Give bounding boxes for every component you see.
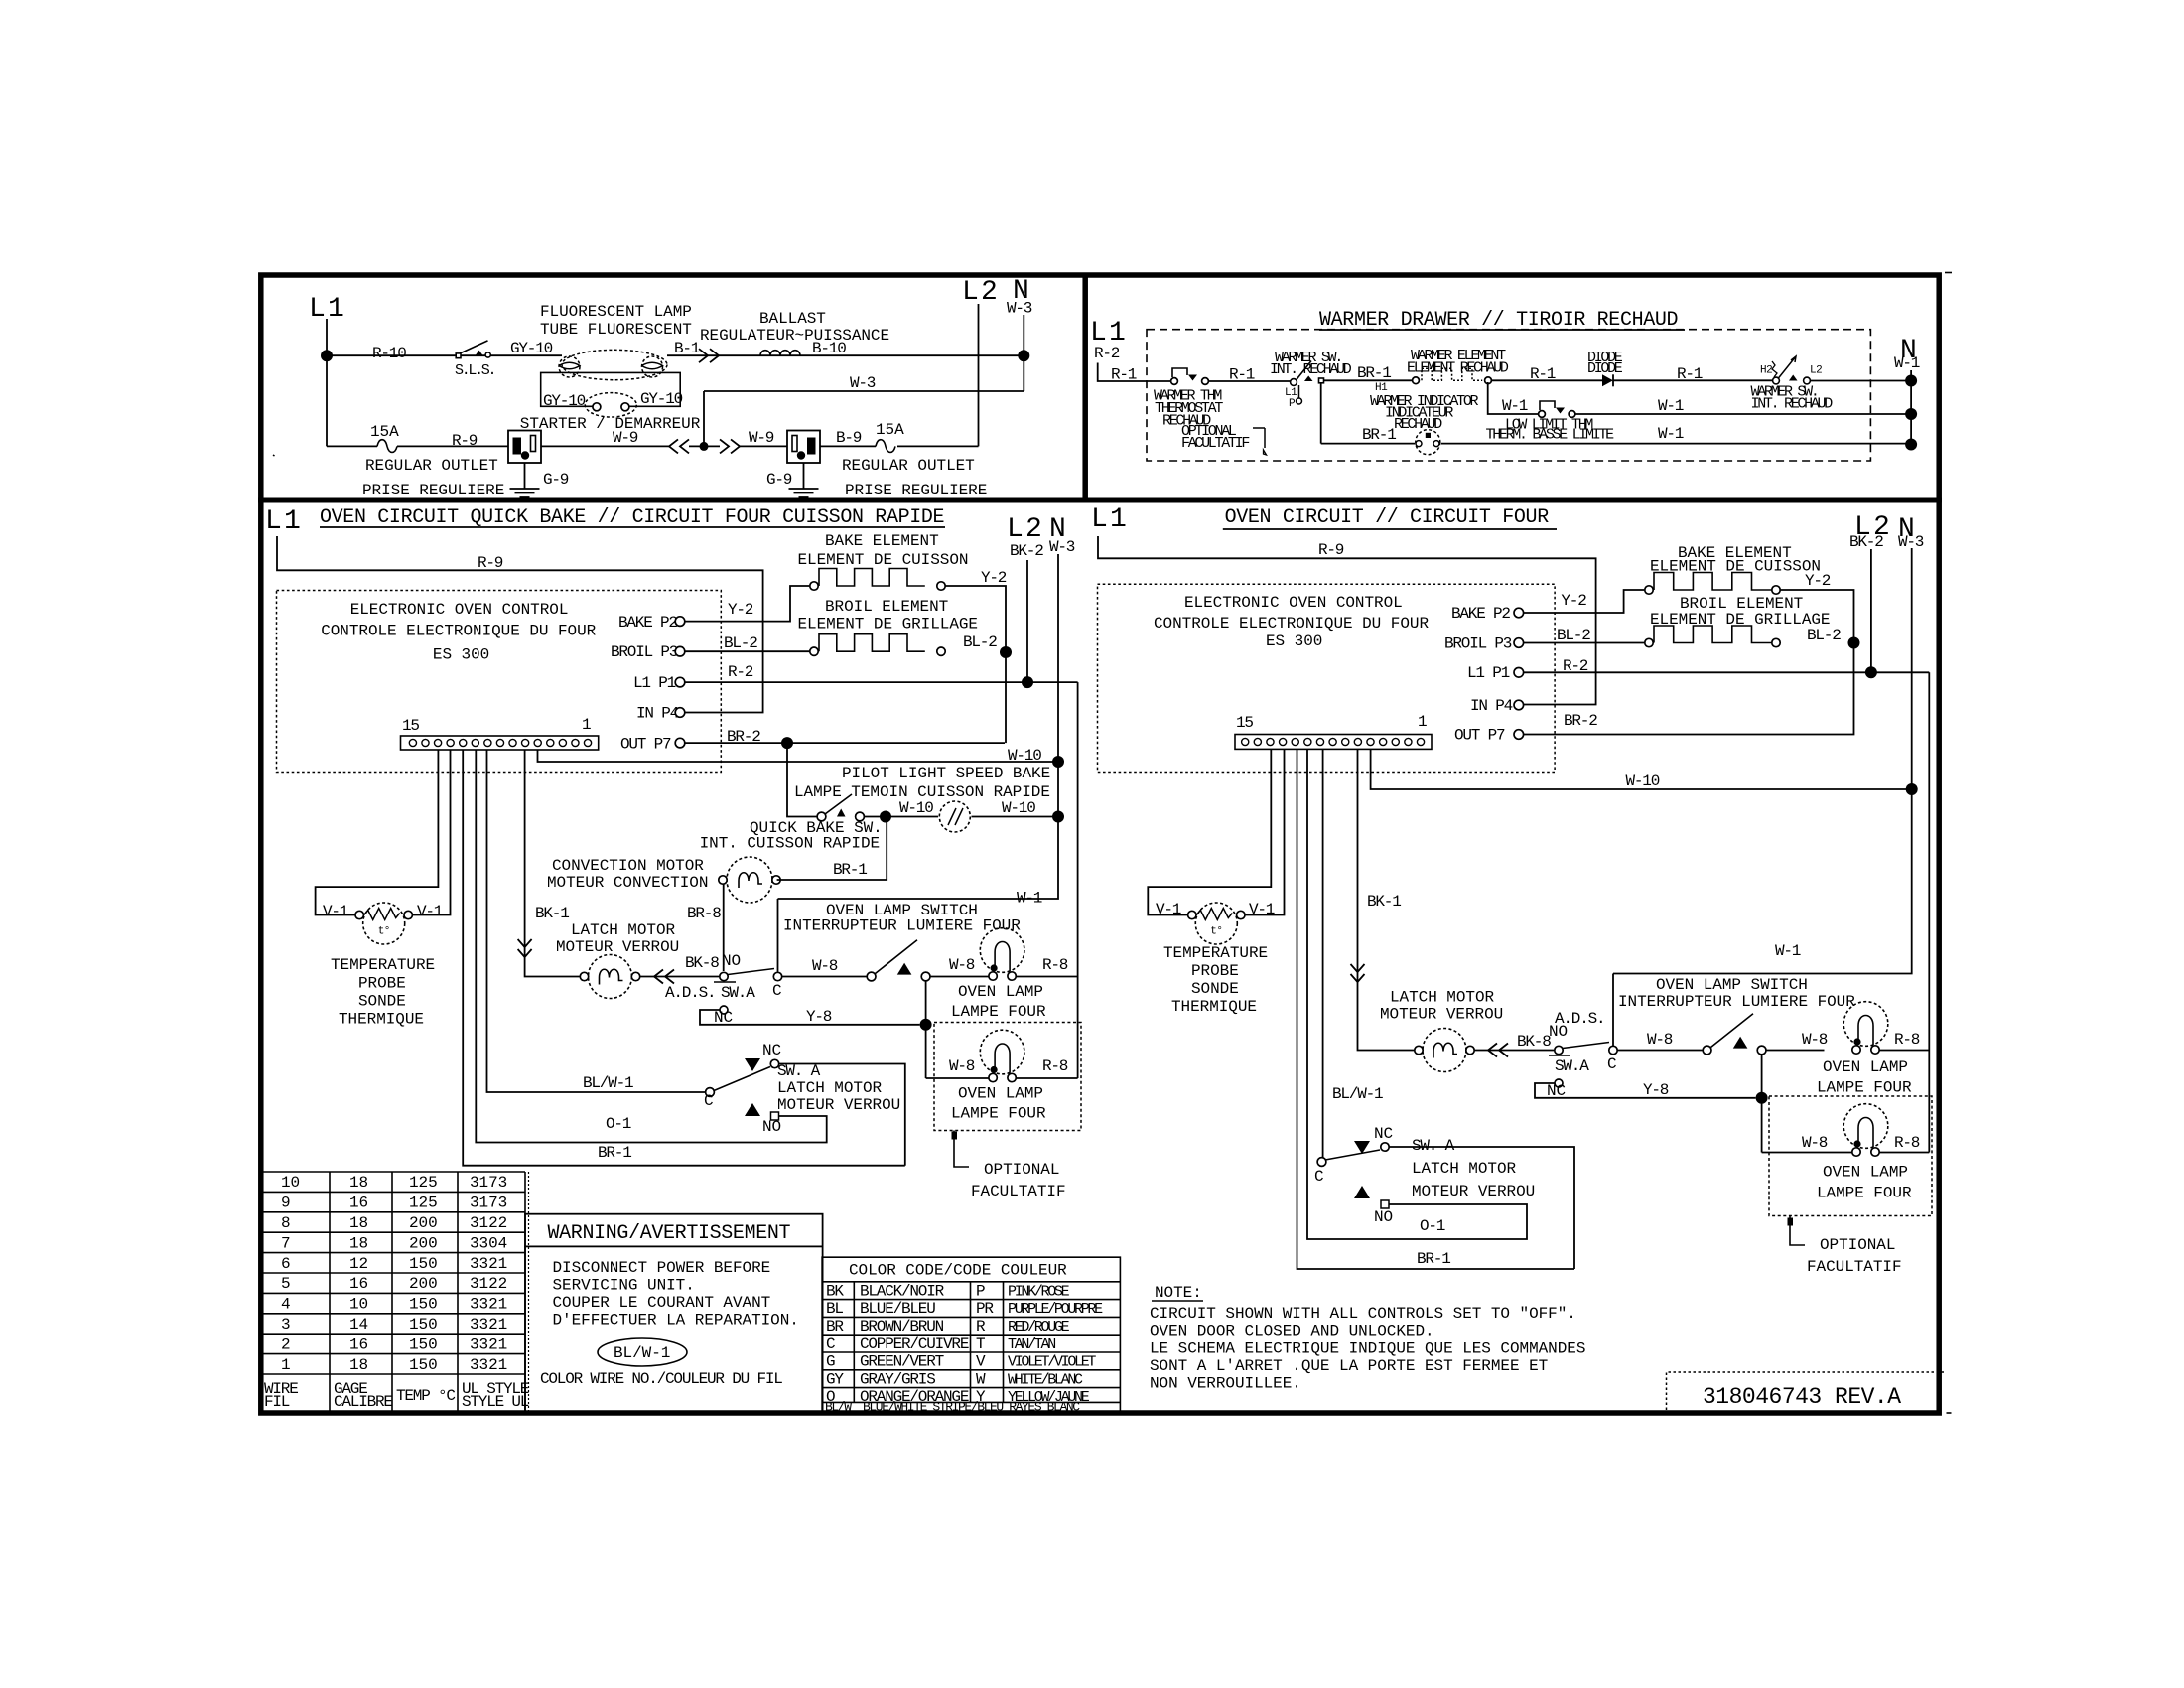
- svg-text:C: C: [826, 1336, 835, 1353]
- svg-text:STARTER / DEMARREUR: STARTER / DEMARREUR: [520, 415, 701, 433]
- svg-text:3173: 3173: [470, 1174, 507, 1192]
- svg-text:ELEMENT RECHAUD: ELEMENT RECHAUD: [1407, 360, 1509, 377]
- svg-text:16: 16: [349, 1275, 368, 1293]
- wire BL-2 node down to P7 row (panel4): [1524, 643, 1854, 735]
- wire bake to BL-2 node: [945, 586, 1006, 648]
- svg-text:R-2: R-2: [728, 663, 753, 681]
- svg-text:PINK/ROSE: PINK/ROSE: [1008, 1283, 1070, 1300]
- wire element branch down: [1320, 382, 1322, 444]
- svg-text:H2: H2: [1760, 365, 1772, 377]
- svg-text:BL-2: BL-2: [963, 633, 997, 651]
- fuse 15A right: [876, 440, 895, 453]
- svg-text:ELEMENT DE GRILLAGE: ELEMENT DE GRILLAGE: [798, 616, 978, 633]
- svg-text:BK-8: BK-8: [1517, 1033, 1551, 1051]
- wire R-2 vertical right edge (panel4): [1928, 672, 1930, 1152]
- svg-text:OPTIONAL: OPTIONAL: [1820, 1236, 1895, 1254]
- switch SW.A lower (panel3): [770, 1059, 778, 1067]
- svg-text:LAMPE FOUR: LAMPE FOUR: [1817, 1185, 1912, 1202]
- svg-text:12: 12: [349, 1255, 368, 1273]
- svg-text:9: 9: [281, 1195, 291, 1212]
- junction dot W-10/N (panel4): [1906, 783, 1918, 795]
- svg-text:TUBE FLUORESCENT: TUBE FLUORESCENT: [540, 321, 692, 339]
- svg-text:OUT P7: OUT P7: [620, 736, 671, 754]
- svg-text:BR-1: BR-1: [1357, 364, 1391, 382]
- svg-text:W-8: W-8: [1802, 1031, 1828, 1049]
- svg-text:OVEN CIRCUIT QUICK BAKE // CIR: OVEN CIRCUIT QUICK BAKE // CIRCUIT FOUR …: [320, 506, 944, 529]
- svg-text:WARMER DRAWER // TIROIR RECHAU: WARMER DRAWER // TIROIR RECHAUD: [1319, 309, 1678, 332]
- wire W-8 segment (panel3): [782, 976, 989, 978]
- svg-text:R-2: R-2: [1094, 345, 1120, 362]
- svg-text:DIODE: DIODE: [1587, 360, 1623, 377]
- svg-text:OVEN LAMP: OVEN LAMP: [1823, 1058, 1908, 1076]
- svg-text:200: 200: [409, 1214, 438, 1232]
- svg-text:CONVECTION MOTOR: CONVECTION MOTOR: [552, 857, 704, 875]
- oven lamp 2 dashed box (panel4): [1769, 1096, 1932, 1216]
- svg-text:SW.A: SW.A: [1555, 1057, 1589, 1075]
- wire lamp2 row (panel4): [1762, 1152, 1930, 1154]
- warmer switch 2: [1773, 377, 1780, 384]
- svg-text:t°: t°: [378, 926, 390, 938]
- svg-text:NOTE:: NOTE:: [1155, 1284, 1202, 1302]
- oven lamp 1 (panel4): [1843, 1002, 1888, 1047]
- wire W-3 row: [704, 391, 1024, 446]
- svg-text:LATCH MOTOR: LATCH MOTOR: [1412, 1160, 1517, 1178]
- chevrons starter junction: [669, 439, 689, 453]
- svg-text:R-9: R-9: [478, 554, 503, 572]
- junction dot N/top wire: [1018, 350, 1029, 361]
- svg-text:W-10: W-10: [1002, 799, 1035, 817]
- bake element (panel4): [1645, 586, 1653, 594]
- svg-text:BR-2: BR-2: [1564, 712, 1597, 730]
- svg-text:7: 7: [281, 1234, 291, 1252]
- svg-text:W-8: W-8: [1802, 1134, 1828, 1152]
- svg-text:CONTROLE ELECTRONIQUE DU FOUR: CONTROLE ELECTRONIQUE DU FOUR: [1154, 615, 1429, 633]
- svg-text:OVEN LAMP: OVEN LAMP: [958, 983, 1043, 1001]
- svg-text:B-9: B-9: [836, 429, 862, 447]
- svg-text:BLUE/BLEU: BLUE/BLEU: [860, 1300, 935, 1318]
- svg-text:V-1: V-1: [417, 903, 443, 920]
- svg-text:RED/ROUGE: RED/ROUGE: [1008, 1319, 1070, 1336]
- svg-text:FACULTATIF: FACULTATIF: [1807, 1258, 1902, 1276]
- wire R-9 from L1 (panel4): [1098, 536, 1596, 705]
- terminal P7 (panel4): [1514, 730, 1524, 740]
- svg-text:LE SCHEMA ELECTRIQUE INDIQUE Q: LE SCHEMA ELECTRIQUE INDIQUE QUE LES COM…: [1150, 1339, 1585, 1357]
- svg-text:W-1: W-1: [1658, 397, 1684, 415]
- wire bake to BL-2 node (panel4): [1780, 590, 1853, 639]
- wire BK-1 from pin6 (panel4): [1358, 750, 1416, 1051]
- wire W-8 segment (panel4): [1617, 1050, 1824, 1052]
- svg-text:W-10: W-10: [1008, 747, 1041, 765]
- svg-text:C: C: [772, 982, 782, 1000]
- wire P1 R-2 row: [685, 681, 1078, 683]
- svg-text:16: 16: [349, 1195, 368, 1212]
- svg-text:OVEN LAMP SWITCH: OVEN LAMP SWITCH: [1656, 976, 1808, 994]
- svg-text:BK-2: BK-2: [1849, 533, 1883, 551]
- oven lamp 2 (panel4): [1843, 1104, 1888, 1149]
- outlet right: [787, 431, 820, 464]
- wire BK-2 from L2: [1026, 560, 1028, 682]
- latch motor (panel3): [589, 955, 632, 999]
- svg-text:ELECTRONIC OVEN CONTROL: ELECTRONIC OVEN CONTROL: [1184, 594, 1403, 612]
- svg-text:BROIL ELEMENT: BROIL ELEMENT: [825, 598, 948, 616]
- stub P contact: [1298, 385, 1300, 398]
- svg-text:TEMP °C: TEMP °C: [396, 1387, 455, 1405]
- svg-text:INT. RECHAUD: INT. RECHAUD: [1270, 361, 1352, 378]
- svg-text:3321: 3321: [470, 1255, 507, 1273]
- tick mark bottom right: [1947, 1412, 1952, 1414]
- svg-text:GY-10: GY-10: [510, 340, 553, 357]
- svg-text:Y-2: Y-2: [981, 569, 1007, 587]
- svg-text:V-1: V-1: [323, 903, 348, 920]
- terminal P2 (panel4): [1514, 608, 1524, 618]
- svg-text:THERMIQUE: THERMIQUE: [339, 1011, 424, 1029]
- svg-text:BR-8: BR-8: [687, 905, 721, 922]
- svg-text:OVEN DOOR CLOSED AND UNLOCKED.: OVEN DOOR CLOSED AND UNLOCKED.: [1150, 1323, 1434, 1340]
- svg-text:PRISE REGULIERE: PRISE REGULIERE: [845, 482, 987, 499]
- svg-text:BAKE P2: BAKE P2: [618, 614, 677, 632]
- svg-text:L2: L2: [1007, 514, 1044, 545]
- starter oval: [585, 393, 636, 417]
- svg-text:150: 150: [409, 1356, 438, 1374]
- svg-text:BR-1: BR-1: [1417, 1250, 1450, 1268]
- pilot light speed bake lamp: [939, 801, 970, 832]
- svg-text:BL: BL: [826, 1300, 843, 1318]
- svg-text:W-1: W-1: [1017, 890, 1042, 908]
- EOC dashed box (panel3): [277, 591, 722, 773]
- oven lamp switch box (panel3 W-1): [777, 899, 779, 972]
- wire R-1 third segment: [1492, 379, 1603, 381]
- svg-text:W-8: W-8: [812, 957, 838, 975]
- fluorescent lamp tube symbol: [562, 350, 667, 379]
- wire BR-1 indicator row: [1321, 443, 1911, 445]
- svg-text:GRAY/GRIS: GRAY/GRIS: [860, 1370, 935, 1388]
- svg-text:R-9: R-9: [1318, 541, 1344, 559]
- svg-text:W-10: W-10: [899, 799, 933, 817]
- wire BL/W-1 (panel4): [1322, 750, 1324, 1159]
- svg-text:W-8: W-8: [949, 956, 975, 974]
- chevrons left (panel4): [1488, 1044, 1508, 1057]
- junction dot Y-8 (panel3): [920, 1019, 932, 1031]
- wire latch motor to chevrons to ADS: [640, 976, 719, 978]
- ellipse BL/W-1: [598, 1338, 687, 1366]
- wire quick bake switch row: [787, 743, 1058, 816]
- svg-text:ELEMENT DE CUISSON: ELEMENT DE CUISSON: [1650, 558, 1821, 576]
- switch SW.A lower (panel4): [1381, 1143, 1389, 1151]
- wire BL-2 node down to BR-2 row: [1005, 652, 1007, 743]
- optional bracket mark: [1253, 428, 1265, 448]
- svg-text:W-1: W-1: [1502, 397, 1528, 415]
- svg-text:G-9: G-9: [766, 471, 792, 489]
- starter return box: [541, 372, 681, 406]
- svg-text:3304: 3304: [470, 1234, 507, 1252]
- svg-text:V-1: V-1: [1156, 901, 1181, 918]
- wire P2 to bake element: [685, 586, 809, 622]
- svg-text:W-3: W-3: [1049, 538, 1075, 556]
- frame vertical divider: [1082, 275, 1088, 500]
- svg-text:P: P: [1289, 398, 1296, 410]
- svg-text:THERM. BASSE LIMITE: THERM. BASSE LIMITE: [1486, 427, 1615, 444]
- svg-text:125: 125: [409, 1174, 438, 1192]
- oven lamp switch box left edge (panel4): [1612, 974, 1614, 1047]
- tick mark top right: [1945, 272, 1952, 274]
- svg-text:BK: BK: [826, 1282, 844, 1300]
- svg-text:COLOR CODE/CODE COULEUR: COLOR CODE/CODE COULEUR: [849, 1262, 1067, 1280]
- svg-text:G-9: G-9: [543, 471, 569, 489]
- wire bottom outlet row: [327, 445, 979, 447]
- svg-text:L2: L2: [962, 277, 1000, 308]
- svg-text:SW. A: SW. A: [1412, 1137, 1455, 1155]
- svg-text:BK-8: BK-8: [685, 954, 719, 972]
- svg-text:BR-2: BR-2: [727, 728, 760, 746]
- svg-text:3321: 3321: [470, 1316, 507, 1334]
- wire BL/W-1 (panel3): [487, 750, 706, 1092]
- svg-text:Y-2: Y-2: [728, 601, 753, 619]
- EOC dashed box (panel4): [1098, 584, 1556, 772]
- svg-text:REGULAR OUTLET: REGULAR OUTLET: [842, 457, 975, 475]
- svg-text:INTERRUPTEUR LUMIERE FOUR: INTERRUPTEUR LUMIERE FOUR: [1618, 993, 1855, 1011]
- terminal P7 (panel3): [675, 738, 685, 748]
- svg-text:SONT A L'ARRET .QUE LA PORTE E: SONT A L'ARRET .QUE LA PORTE EST FERMEE …: [1150, 1357, 1548, 1375]
- svg-text:Y-8: Y-8: [1643, 1081, 1669, 1099]
- wire R-1 fourth segment: [1613, 379, 1773, 381]
- svg-text:LAMPE FOUR: LAMPE FOUR: [1817, 1079, 1912, 1097]
- junction dots on N line: [1905, 375, 1917, 387]
- wire W-10 (panel4): [1371, 750, 1912, 790]
- svg-text:PROBE: PROBE: [1191, 962, 1239, 980]
- wire R-1 second segment: [1209, 380, 1291, 382]
- svg-text:3321: 3321: [470, 1356, 507, 1374]
- wire L1 elbow: [1098, 363, 1170, 382]
- wire N W-3 vertical (panel4): [1613, 548, 1912, 974]
- svg-text:L1: L1: [309, 294, 346, 325]
- chevrons down BK-1 (panel4): [1351, 964, 1365, 982]
- svg-text:NO: NO: [1374, 1208, 1393, 1226]
- wire P3 to broil element: [685, 650, 810, 652]
- ballast coil: [760, 351, 800, 356]
- wire convection motor to quick-bake junction: [777, 820, 887, 880]
- svg-text:L1 P1: L1 P1: [1467, 664, 1510, 682]
- junction dot BL-2 (panel4): [1848, 637, 1860, 649]
- svg-text:R-10: R-10: [372, 345, 406, 362]
- oven lamp 1 (panel3): [980, 928, 1024, 973]
- wire Y-8 row (panel3): [700, 1010, 920, 1025]
- svg-text:BL/W-1: BL/W-1: [583, 1074, 633, 1092]
- svg-text:BLUE/WHITE STRIPE/BLEU RAYES B: BLUE/WHITE STRIPE/BLEU RAYES BLANC: [863, 1400, 1080, 1415]
- svg-text:2: 2: [281, 1336, 291, 1353]
- svg-text:MOTEUR VERROU: MOTEUR VERROU: [777, 1096, 900, 1114]
- svg-text:6: 6: [281, 1255, 291, 1273]
- junction dot BK-2/P1 (panel3): [1022, 676, 1033, 688]
- svg-text:NO: NO: [722, 952, 741, 970]
- broil element (panel3): [810, 647, 818, 655]
- low limit thermostat: [1539, 411, 1546, 418]
- svg-text:INT. RECHAUD: INT. RECHAUD: [1751, 396, 1834, 413]
- svg-text:A.D.S.: A.D.S.: [665, 984, 715, 1002]
- svg-text:W-9: W-9: [613, 429, 638, 447]
- svg-text:BAKE ELEMENT: BAKE ELEMENT: [825, 532, 939, 550]
- svg-text:15: 15: [402, 717, 419, 735]
- wire N vertical (panel2): [1910, 370, 1912, 445]
- svg-text:O-1: O-1: [606, 1115, 631, 1133]
- svg-text:SW.A: SW.A: [721, 984, 755, 1002]
- svg-text:INTERRUPTEUR LUMIERE FOUR: INTERRUPTEUR LUMIERE FOUR: [783, 917, 1021, 935]
- svg-text:INT. CUISSON RAPIDE: INT. CUISSON RAPIDE: [700, 835, 880, 853]
- svg-text:BL-2: BL-2: [724, 634, 757, 652]
- chevrons left (panel3): [654, 970, 674, 984]
- wire P7 BR-2 row: [685, 742, 1005, 744]
- junction dot W-10/N (panel3): [1052, 756, 1064, 768]
- oven lamp 2 dashed box (panel3): [934, 1023, 1081, 1131]
- svg-text:B-10: B-10: [812, 340, 846, 357]
- NC contact (panel3 ADS): [720, 1006, 728, 1014]
- wire P1 R-2 row (panel4): [1524, 671, 1930, 673]
- svg-text:LAMPE FOUR: LAMPE FOUR: [951, 1105, 1046, 1123]
- svg-text:W-8: W-8: [1647, 1031, 1673, 1049]
- svg-text:S.L.S.: S.L.S.: [455, 362, 494, 379]
- wire N W-3 vertical (panel3): [778, 554, 1059, 899]
- svg-text:3122: 3122: [470, 1275, 507, 1293]
- svg-text:SERVICING UNIT.: SERVICING UNIT.: [553, 1277, 695, 1295]
- svg-text:W-3: W-3: [1007, 299, 1032, 317]
- temperature probe (panel3): [363, 903, 405, 944]
- svg-text:BROIL P3: BROIL P3: [1444, 635, 1512, 653]
- svg-text:R-8: R-8: [1042, 1057, 1068, 1075]
- warmer indicator lamp: [1416, 430, 1440, 455]
- svg-text:FACULTATIF: FACULTATIF: [1181, 435, 1249, 452]
- svg-text:PR: PR: [976, 1300, 994, 1318]
- svg-text:PRISE REGULIERE: PRISE REGULIERE: [362, 482, 504, 499]
- warning box: [525, 1214, 823, 1247]
- svg-text:WARNING/AVERTISSEMENT: WARNING/AVERTISSEMENT: [548, 1222, 791, 1245]
- wire P3 to broil element (panel4): [1524, 642, 1645, 644]
- junction dot pilot/N (panel3): [1052, 811, 1064, 823]
- svg-text:10: 10: [281, 1174, 300, 1192]
- bake element (panel3): [810, 582, 818, 590]
- svg-text:SONDE: SONDE: [358, 993, 406, 1011]
- wire O-1 loop (panel3): [476, 750, 826, 1143]
- svg-text:18: 18: [349, 1234, 368, 1252]
- quick bake switch: [817, 812, 826, 821]
- svg-text:R-1: R-1: [1229, 366, 1255, 384]
- wire R-9 from L1: [277, 536, 763, 713]
- convection motor: [727, 857, 772, 903]
- svg-text:8: 8: [281, 1214, 291, 1232]
- svg-text:BL/W: BL/W: [825, 1400, 852, 1415]
- svg-text:15A: 15A: [876, 421, 904, 439]
- svg-text:OVEN LAMP: OVEN LAMP: [958, 1085, 1043, 1103]
- switch S.L.S.: [456, 353, 461, 358]
- svg-text:C: C: [1314, 1168, 1324, 1186]
- optional bracket (panel3): [954, 1131, 969, 1168]
- svg-text:NO: NO: [762, 1118, 781, 1136]
- svg-text:NON VERROUILLEE.: NON VERROUILLEE.: [1150, 1375, 1301, 1393]
- latch motor (panel4): [1423, 1029, 1466, 1072]
- svg-text:V-1: V-1: [1249, 901, 1275, 918]
- svg-text:DISCONNECT POWER BEFORE: DISCONNECT POWER BEFORE: [553, 1259, 771, 1277]
- svg-text:LATCH MOTOR: LATCH MOTOR: [1390, 989, 1495, 1007]
- connector chevrons right: [699, 349, 719, 362]
- svg-text:O-1: O-1: [1420, 1217, 1445, 1235]
- svg-text:REGULAR OUTLET: REGULAR OUTLET: [365, 457, 498, 475]
- svg-text:GY-10: GY-10: [640, 390, 683, 408]
- warmer element: [1413, 377, 1420, 384]
- svg-text:R-1: R-1: [1530, 365, 1556, 383]
- svg-text:BR-1: BR-1: [1362, 426, 1396, 444]
- svg-text:VIOLET/VIOLET: VIOLET/VIOLET: [1008, 1354, 1096, 1371]
- svg-text:OPTIONAL: OPTIONAL: [984, 1161, 1059, 1179]
- svg-text:1: 1: [582, 716, 591, 734]
- ground left outlet: [524, 463, 526, 489]
- wire L1 vertical: [326, 319, 328, 446]
- svg-text:STYLE UL: STYLE UL: [462, 1393, 529, 1411]
- svg-text:FIL: FIL: [264, 1393, 290, 1411]
- ground right outlet: [803, 463, 805, 489]
- svg-text:BR-1: BR-1: [598, 1144, 631, 1162]
- svg-text:R-8: R-8: [1042, 956, 1068, 974]
- wire W-1 row (low limit): [1488, 382, 1911, 414]
- svg-text:BR: BR: [826, 1318, 844, 1336]
- svg-text:B-1: B-1: [674, 340, 700, 357]
- svg-text:TEMPERATURE: TEMPERATURE: [1163, 944, 1268, 962]
- fuse 15A left: [377, 440, 397, 453]
- svg-text:BAKE P2: BAKE P2: [1451, 605, 1510, 623]
- svg-text:IN P4: IN P4: [636, 705, 679, 723]
- wire R-2 vertical right edge (panel3): [1077, 682, 1079, 1078]
- wire top (R-10 / GY-10 / B-1 / B-10 row): [327, 354, 1024, 356]
- svg-text:W-1: W-1: [1658, 425, 1684, 443]
- svg-text:200: 200: [409, 1275, 438, 1293]
- svg-text:NC: NC: [714, 1009, 733, 1027]
- wire Y-8 row (panel4): [1535, 1083, 1756, 1098]
- temperature probe (panel4): [1195, 903, 1237, 944]
- outlet left: [508, 431, 541, 464]
- optional bracket (panel4): [1790, 1216, 1805, 1246]
- oven lamp switch (panel4): [1703, 1046, 1711, 1055]
- svg-text:BROIL P3: BROIL P3: [611, 643, 678, 661]
- svg-text:10: 10: [349, 1296, 368, 1314]
- svg-text:OVEN LAMP: OVEN LAMP: [1823, 1164, 1908, 1182]
- svg-text:318046743 REV.A: 318046743 REV.A: [1703, 1384, 1901, 1410]
- svg-text:TEMPERATURE: TEMPERATURE: [331, 956, 435, 974]
- wire temperature probe loop (panel4): [1148, 750, 1284, 915]
- svg-text:SONDE: SONDE: [1191, 980, 1239, 998]
- wire lamp2 row (panel3): [926, 1077, 1078, 1079]
- color code table: [822, 1257, 1120, 1412]
- svg-text:R-9: R-9: [452, 432, 478, 450]
- svg-text:ES 300: ES 300: [433, 646, 489, 664]
- svg-text:T: T: [976, 1336, 985, 1353]
- ADS switch (panel4): [1555, 1046, 1563, 1054]
- svg-text:MOTEUR CONVECTION: MOTEUR CONVECTION: [547, 874, 708, 892]
- svg-text:COUPER LE COURANT AVANT: COUPER LE COURANT AVANT: [553, 1294, 771, 1312]
- svg-text:L1 P1: L1 P1: [633, 674, 676, 692]
- svg-text:MOTEUR VERROU: MOTEUR VERROU: [1380, 1006, 1503, 1024]
- wire convection motor left down to ADS NO: [723, 884, 725, 971]
- tick mark left: [273, 455, 275, 456]
- svg-text:PILOT LIGHT SPEED BAKE: PILOT LIGHT SPEED BAKE: [842, 765, 1050, 782]
- svg-text:REGULATEUR~PUISSANCE: REGULATEUR~PUISSANCE: [700, 327, 889, 345]
- wire L2 vertical: [978, 304, 980, 446]
- wire BK-2 from L2 (panel4): [1870, 549, 1872, 672]
- svg-text:BLACK/NOIR: BLACK/NOIR: [860, 1282, 945, 1300]
- svg-text:MOTEUR VERROU: MOTEUR VERROU: [1412, 1183, 1535, 1200]
- svg-text:L2: L2: [1810, 365, 1822, 377]
- diode: [1602, 374, 1613, 386]
- terminal P3 (panel4): [1514, 638, 1524, 648]
- svg-text:TAN/TAN: TAN/TAN: [1008, 1336, 1055, 1353]
- terminal P4 (panel3): [675, 708, 685, 718]
- svg-text:Y-2: Y-2: [1561, 592, 1586, 610]
